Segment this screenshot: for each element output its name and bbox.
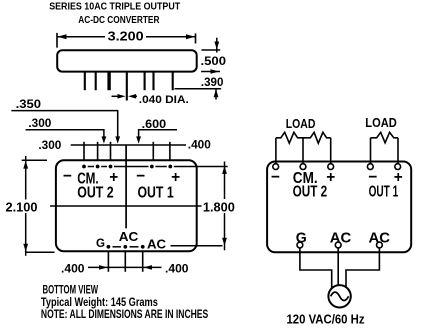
svg-text:OUT 2: OUT 2 (293, 184, 328, 201)
svg-text:OUT 1: OUT 1 (369, 184, 399, 201)
title text (49, 2, 180, 26)
svg-text:AC-DC CONVERTER: AC-DC CONVERTER (78, 15, 160, 26)
svg-text:.300: .300 (38, 140, 61, 152)
schematic bottom labels (296, 230, 390, 247)
side view pins (85, 72, 173, 101)
dimension .390 (175, 69, 224, 99)
svg-text:.350: .350 (16, 99, 41, 111)
svg-text:LOAD: LOAD (365, 116, 397, 130)
svg-text:+: + (109, 169, 118, 186)
svg-text:.390: .390 (201, 77, 224, 89)
bottom pins (108, 251, 142, 271)
svg-text:AC: AC (147, 236, 167, 251)
svg-text:G: G (96, 236, 105, 250)
wire G to source (300, 248, 332, 288)
svg-text:.400: .400 (188, 139, 211, 151)
svg-text:.400: .400 (165, 263, 189, 275)
top pin dots row (82, 165, 228, 169)
top terminal circles (273, 164, 401, 170)
mid line (50, 205, 203, 207)
svg-text:+: + (326, 169, 335, 186)
dimension 3.200 line (57, 28, 196, 48)
svg-text:SERIES 10AC TRIPLE OUTPUT: SERIES 10AC TRIPLE OUTPUT (49, 2, 180, 13)
svg-text:.040 DIA.: .040 DIA. (139, 94, 189, 106)
schematic box (267, 162, 411, 253)
resistor load R2 zigzag (303, 132, 331, 143)
wire AC right to source (346, 248, 379, 288)
top pin line (71, 144, 186, 146)
bottom view OUT labels (77, 185, 174, 202)
side view body (57, 50, 197, 71)
bottom terminal row: G label (96, 236, 145, 250)
svg-text:−: − (136, 168, 145, 185)
bottom view terminal labels row 1 (63, 168, 180, 187)
wire resistor terminals right (371, 138, 399, 164)
svg-text:120 VAC/60 Hz: 120 VAC/60 Hz (287, 311, 365, 326)
bottom AC labels (119, 229, 223, 252)
svg-text:.500: .500 (201, 56, 227, 68)
dimension .500 (201, 38, 227, 68)
top pin leads (84, 142, 170, 161)
svg-text:LOAD: LOAD (286, 117, 316, 131)
svg-text:AC: AC (119, 229, 139, 244)
svg-text:.400: .400 (61, 263, 85, 275)
bottom view box (56, 160, 197, 251)
svg-text:OUT 1: OUT 1 (138, 185, 174, 202)
leader .350 (11, 99, 120, 144)
svg-text:−: − (63, 168, 72, 185)
svg-text:+: + (171, 169, 180, 186)
bottom notes text (41, 282, 208, 321)
schematic terminal labels (271, 169, 403, 187)
leader .300 upper (26, 118, 107, 144)
.040 DIA callout (112, 94, 189, 106)
svg-text:NOTE: ALL DIMENSIONS ARE IN IN: NOTE: ALL DIMENSIONS ARE IN INCHES (41, 307, 208, 321)
wire AC mid to source (337, 248, 339, 285)
resistor load R3 zigzag (371, 132, 399, 143)
resistor load R1 zigzag (276, 132, 303, 143)
svg-text:−: − (271, 169, 280, 186)
bottom .400 dimension (61, 263, 189, 275)
center divider (125, 145, 127, 228)
svg-text:2.100: 2.100 (6, 201, 38, 215)
wire resistor terminals left (276, 138, 331, 164)
svg-text:3.200: 3.200 (108, 28, 144, 43)
ac source V1 (328, 285, 350, 307)
leader .600 (136, 119, 177, 143)
schematic OUT labels (293, 184, 399, 201)
svg-text:1.800: 1.800 (203, 201, 235, 215)
bottom terminal circles (297, 242, 382, 248)
svg-text:OUT 2: OUT 2 (77, 185, 114, 202)
svg-text:AC: AC (369, 230, 391, 247)
dimension 1.800 (202, 162, 238, 251)
dimension 2.100 (4, 156, 55, 256)
svg-text:.300: .300 (28, 118, 51, 130)
